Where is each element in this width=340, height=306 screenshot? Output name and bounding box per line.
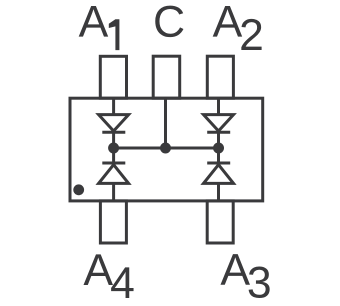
junction node right [213, 143, 224, 154]
label A3 subscript 3 [249, 267, 270, 299]
label A2 letter A [213, 6, 243, 37]
pin A2 lead [207, 56, 233, 98]
diode D1 triangle [99, 115, 129, 131]
wire node K to D4 cathode [112, 148, 115, 163]
wire D1 cathode to node K [112, 132, 115, 148]
diode D3 cathode bar [207, 162, 230, 165]
label A3 letter A [220, 254, 250, 285]
diode D3 triangle [204, 165, 234, 184]
pin C lead [153, 56, 180, 98]
diode D1 cathode bar [102, 131, 125, 134]
diode D4 cathode bar [102, 162, 125, 165]
junction node left [108, 143, 119, 154]
package outline box [70, 98, 263, 201]
diode D2 triangle [204, 115, 234, 131]
diode D2 cathode bar [207, 131, 230, 134]
wire D3 anode to A3 [217, 183, 220, 201]
junction node center C [160, 143, 171, 154]
pin 1 indicator dot [73, 184, 84, 195]
pin A4 lead [100, 201, 126, 243]
diode D4 triangle [99, 165, 129, 184]
pin A1 lead [100, 56, 126, 98]
pin A3 lead [207, 201, 233, 243]
label A1 subscript 1 [109, 19, 120, 50]
wire node K to D3 cathode [217, 148, 220, 163]
wire D4 anode to A4 [112, 183, 115, 201]
label C letter C [155, 6, 183, 38]
wire D2 cathode to node K [217, 132, 220, 148]
label A1 letter A [79, 6, 109, 37]
wire A1 to D1 anode [112, 98, 115, 114]
label A2 subscript 2 [241, 19, 261, 50]
wire C to node K [164, 98, 167, 148]
common cathode rail [114, 147, 219, 150]
wire A2 to D2 anode [217, 98, 220, 114]
label A4 subscript 4 [111, 267, 133, 298]
label A4 letter A [83, 254, 113, 285]
